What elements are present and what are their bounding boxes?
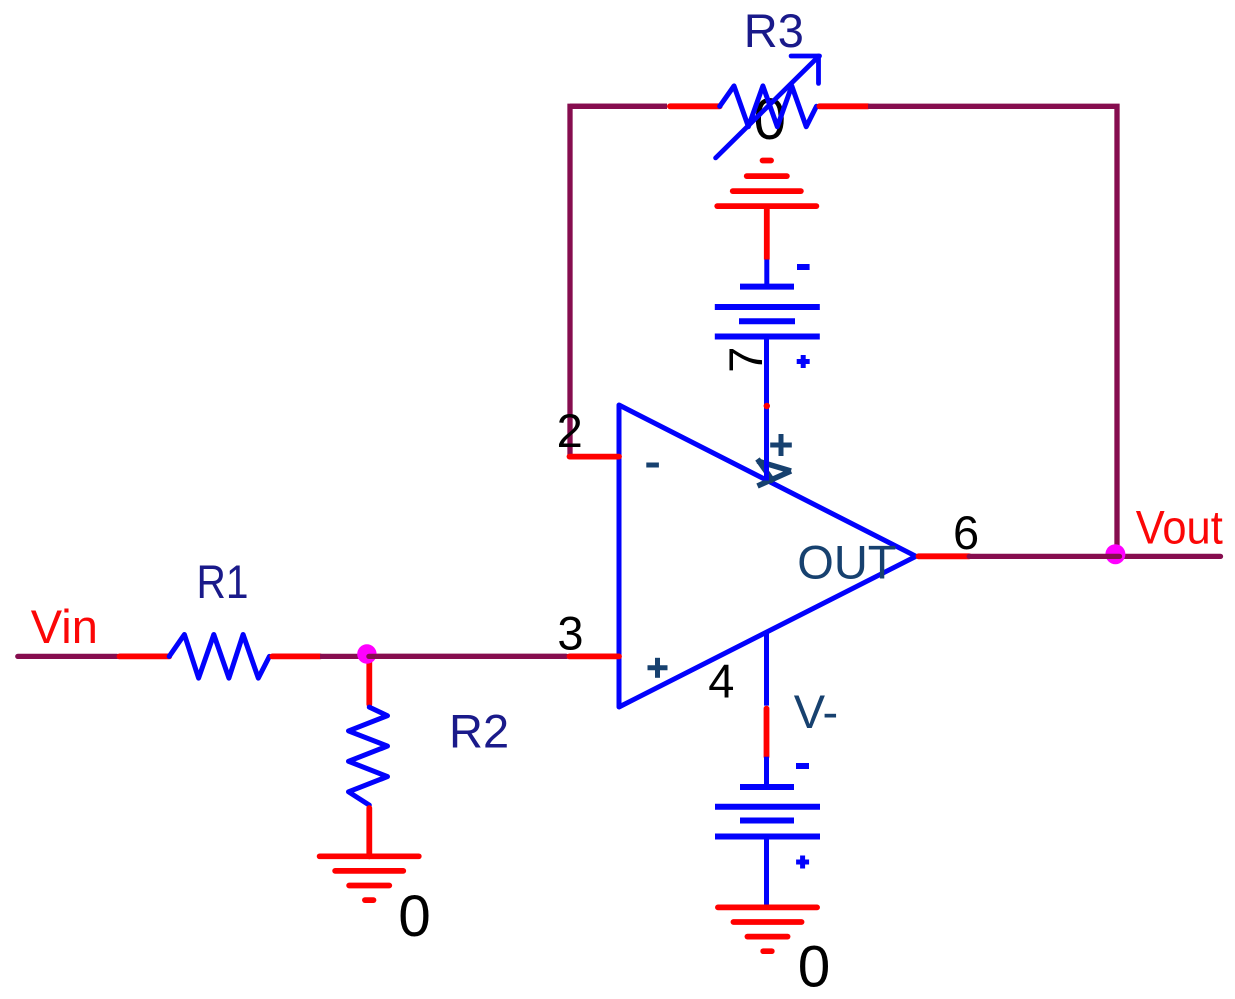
resistor R2 bottom pin stub: [366, 808, 372, 856]
top ground red stub: [764, 206, 770, 259]
wire feedback top horizontal right and right vertical: [868, 106, 1117, 556]
op-amp inverting input minus marker: [646, 463, 659, 468]
wire Vin input segment: [18, 654, 117, 659]
svg-text:Vout: Vout: [1136, 501, 1223, 554]
ground 0 above battery (flipped): [717, 161, 816, 207]
battery V+ minus marker: [797, 264, 810, 270]
svg-text:4: 4: [708, 655, 734, 708]
svg-text:R1: R1: [197, 555, 249, 608]
wire R1 to op-amp pin 3: [320, 654, 567, 659]
resistor R3 body: [720, 86, 817, 127]
svg-text:3: 3: [557, 606, 583, 659]
op-amp V+ pin wire: [764, 337, 769, 481]
node junction dot at Vout: [1105, 544, 1125, 564]
resistor R1 body: [169, 635, 269, 679]
op-amp V- pin stub: [764, 709, 770, 757]
wire output pin 6 to junction (over dot): [969, 554, 1119, 559]
battery V- bottom stub blue: [764, 837, 769, 908]
resistor R3 wiper arrow: [716, 56, 820, 158]
resistor R2 top pin stub: [366, 659, 372, 704]
battery V- top pin stub blue: [764, 757, 769, 787]
svg-text:R2: R2: [449, 705, 509, 758]
wire junction to op-amp pin 3 (over dot): [369, 654, 567, 659]
resistor R3 left pin stub: [670, 103, 720, 109]
op-amp U1 triangle body: [619, 405, 916, 707]
svg-text:2: 2: [557, 404, 583, 457]
op-amp pin 3 stub: [570, 654, 620, 660]
resistor R2 body: [349, 707, 388, 805]
resistor R1 right pin stub: [272, 654, 320, 660]
resistor R1 left pin stub: [120, 654, 170, 660]
op-amp pin 2 wire from feedback: [570, 106, 667, 456]
battery V+ top pin stub blue: [764, 260, 769, 288]
op-amp pin 6 output stub: [919, 553, 970, 559]
resistor R3 right pin stub: [819, 103, 868, 109]
battery V+ plus marker: [797, 355, 810, 368]
svg-text:Vin: Vin: [31, 600, 98, 653]
op-amp V+ power pin marker plus: [770, 434, 792, 456]
ground 0 below R2: [320, 856, 419, 900]
svg-text:6: 6: [953, 506, 979, 559]
node junction dot at R1/R2: [357, 644, 376, 663]
op-amp pin 2 stub: [570, 454, 620, 460]
pin 7 connection dot: [764, 403, 770, 409]
svg-text:V-: V-: [794, 685, 838, 738]
op-amp V+ power pin arrow glyph: [758, 459, 792, 486]
ground 0 below battery: [718, 907, 817, 951]
battery V- supply: plates: [715, 787, 820, 837]
svg-text:0: 0: [398, 884, 431, 949]
wire junction to Vout right end (under dot): [1115, 554, 1221, 559]
svg-text:0: 0: [798, 935, 831, 999]
op-amp V- pin wire: [764, 632, 769, 706]
wire feedback top horizontal left: [570, 104, 667, 109]
svg-text:OUT: OUT: [797, 536, 896, 589]
battery V- minus marker: [796, 763, 809, 769]
battery V+ supply: plates: [715, 287, 820, 337]
op-amp non-inverting input plus marker: [648, 658, 668, 678]
svg-text:R3: R3: [744, 4, 804, 57]
svg-text:7: 7: [719, 347, 772, 373]
battery V- plus marker: [796, 856, 809, 869]
